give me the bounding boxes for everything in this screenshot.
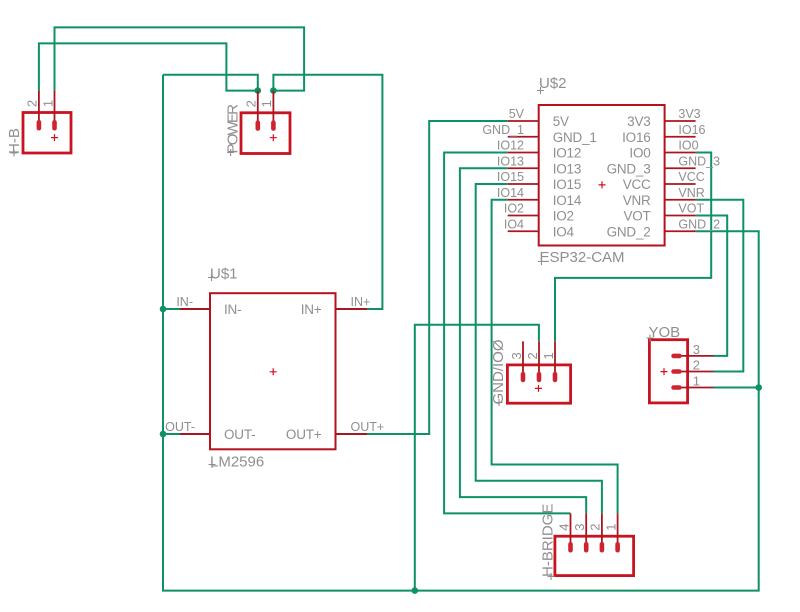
svg-text:VCC: VCC: [623, 177, 651, 192]
svg-text:IO2: IO2: [504, 202, 524, 216]
svg-text:ESP32-CAM: ESP32-CAM: [540, 249, 625, 266]
svg-text:H-BRIDGE: H-BRIDGE: [540, 504, 557, 577]
pin U$2 GND_2: [665, 230, 696, 232]
connector H-B: [23, 113, 71, 154]
wire net VIN- : H-B pin2 to POWER pin2: [39, 43, 258, 90]
net label OUT-: [165, 420, 195, 434]
wire net VIN+ : POWER pin1 to U$1 IN+: [273, 75, 382, 309]
pin U$2 VOT: [665, 215, 696, 217]
pin H-BRIDGE.2: [600, 513, 605, 552]
connector GND/IO0: [507, 365, 570, 403]
svg-text:VNR: VNR: [678, 186, 704, 200]
svg-text:IO12: IO12: [497, 139, 524, 153]
svg-text:1: 1: [259, 100, 274, 107]
svg-text:IN-: IN-: [224, 302, 241, 317]
svg-text:IO4: IO4: [553, 224, 575, 239]
pin number H-BRIDGE 3: [572, 524, 587, 531]
svg-text:OUT+: OUT+: [286, 427, 322, 442]
wire net IO13 : U$2 IO13 to H-BRIDGE pin3: [460, 168, 586, 513]
svg-text:OUT-: OUT-: [224, 427, 255, 442]
svg-text:U$2: U$2: [539, 75, 567, 92]
svg-text:VOT: VOT: [623, 209, 650, 224]
svg-text:IO15: IO15: [497, 170, 524, 184]
refdes U$2: [537, 75, 567, 94]
wire net GND : YOB pin1 to right riser: [714, 387, 759, 389]
svg-text:2: 2: [588, 524, 603, 531]
svg-text:LM2596: LM2596: [210, 454, 264, 471]
svg-text:IO14: IO14: [497, 186, 524, 200]
pin number H-BRIDGE 1: [603, 524, 618, 531]
wire net IO15 : U$2 IO15 to H-BRIDGE pin2: [476, 184, 602, 513]
pin U$2 IO0: [665, 152, 696, 154]
net label OUT+: [351, 420, 385, 434]
origin cross GND/IO0: [535, 385, 542, 392]
pin POWER.1: [271, 91, 276, 131]
svg-text:IO16: IO16: [622, 130, 650, 145]
svg-text:U$1: U$1: [210, 266, 238, 283]
pin number H-B 1: [40, 100, 55, 107]
pin number POWER 1: [259, 100, 274, 107]
junction POWER pin1: [270, 87, 277, 94]
pin number GND/IO0 2: [525, 352, 540, 359]
connector POWER: [241, 113, 290, 154]
pin U$2 VNR: [665, 199, 696, 201]
svg-text:IO12: IO12: [553, 146, 581, 161]
svg-text:3: 3: [693, 342, 700, 357]
pin number H-B 2: [25, 100, 40, 107]
junction bottom rail GND branch: [412, 587, 419, 594]
svg-text:3V3: 3V3: [678, 107, 700, 121]
wire net GND : U$2 GND_2 down right riser: [696, 231, 759, 387]
pin H-BRIDGE.3: [584, 513, 589, 552]
pin GND/IO0.3: [521, 341, 526, 382]
value ESP32-CAM: [538, 249, 625, 266]
svg-text:1: 1: [603, 524, 618, 531]
svg-text:OUT+: OUT+: [351, 420, 385, 434]
svg-text:GND_1: GND_1: [553, 130, 597, 145]
pin U$1 OUT+: [336, 433, 368, 435]
pin U$2 IO4: [508, 230, 539, 232]
pin number H-BRIDGE 4: [556, 524, 571, 531]
pin number YOB 1: [693, 374, 700, 389]
label H-BRIDGE: [540, 504, 557, 580]
pin H-B.1: [52, 90, 57, 130]
svg-text:3: 3: [572, 524, 587, 531]
pin U$2 IO12: [508, 152, 539, 154]
pin U$2 IO2: [508, 215, 539, 217]
wire net VOT : U$2 VOT to YOB pin3: [696, 216, 728, 356]
pin U$1 IN-: [180, 308, 210, 310]
svg-text:1: 1: [40, 100, 55, 107]
wire net VIN+ : H-B pin1 to POWER pin1: [55, 27, 305, 90]
pin U$2 IO13: [508, 167, 539, 169]
svg-text:IN-: IN-: [176, 295, 193, 309]
pin GND/IO0.1: [553, 341, 558, 382]
svg-text:IO14: IO14: [553, 193, 582, 208]
svg-text:GND_3: GND_3: [607, 161, 651, 176]
pin names U$2 right: [607, 114, 651, 239]
svg-text:IN+: IN+: [301, 302, 322, 317]
origin cross U$1: [270, 368, 277, 375]
pin H-B.2: [37, 90, 42, 130]
label POWER: [225, 104, 242, 156]
svg-text:5V: 5V: [509, 107, 525, 121]
svg-text:IO2: IO2: [553, 209, 574, 224]
value LM2596: [209, 454, 265, 471]
label GND/IO0: [490, 339, 507, 406]
wire net GND : rail tap to U$1 IN-: [163, 308, 180, 310]
pin U$2 IO15: [508, 183, 539, 185]
wire net 5V : U$1 OUT+ to U$2 5V: [367, 121, 508, 434]
pin U$2 VCC: [665, 183, 696, 185]
wire net GND : POWER pin2 drop to left rail: [163, 75, 258, 91]
svg-text:IO0: IO0: [678, 139, 698, 153]
svg-text:1: 1: [693, 374, 700, 389]
net label IN-: [176, 295, 193, 309]
svg-text:GND_2: GND_2: [607, 224, 651, 239]
pin YOB.1: [671, 385, 713, 390]
svg-text:3V3: 3V3: [627, 114, 650, 129]
svg-text:2: 2: [693, 358, 700, 373]
svg-text:VCC: VCC: [678, 170, 704, 184]
pin name U$1 IN-: [224, 302, 241, 317]
pin name U$1 IN+: [301, 302, 322, 317]
pin number H-BRIDGE 2: [588, 524, 603, 531]
wire net GND : rail tap to U$1 OUT-: [163, 433, 180, 435]
svg-text:IO13: IO13: [553, 161, 581, 176]
pin U$2 5V: [508, 120, 539, 122]
svg-text:GND_1: GND_1: [482, 123, 524, 137]
pin U$2 GND_3: [665, 167, 696, 169]
svg-text:VOT: VOT: [678, 202, 704, 216]
pin YOB.3: [671, 354, 713, 359]
pin names U$2 left: [553, 114, 597, 239]
wire net VNR : U$2 VNR to YOB pin2: [696, 200, 744, 372]
wire net IO14 : U$2 IO14 to H-BRIDGE pin1: [492, 200, 618, 514]
svg-text:IO13: IO13: [497, 154, 524, 168]
pin POWER.2: [256, 91, 261, 131]
svg-text:IO4: IO4: [504, 217, 524, 231]
origin cross POWER: [270, 134, 277, 141]
pin U$2 3V3: [665, 120, 696, 122]
svg-text:3: 3: [509, 352, 524, 359]
svg-text:OUT-: OUT-: [165, 420, 195, 434]
svg-text:POWER: POWER: [225, 104, 242, 154]
net label IN+: [351, 295, 371, 309]
net labels U$2 right: [678, 107, 720, 231]
label H-B: [6, 128, 23, 156]
origin cross U$2: [599, 181, 606, 188]
svg-text:2: 2: [244, 100, 259, 107]
svg-text:4: 4: [556, 524, 571, 531]
net labels U$2 left: [482, 107, 524, 231]
svg-text:IN+: IN+: [351, 295, 371, 309]
IC U$2 ESP32-CAM body: [539, 105, 665, 246]
pin U$1 OUT-: [180, 433, 210, 435]
svg-text:5V: 5V: [553, 114, 569, 129]
pin H-BRIDGE.1: [615, 513, 620, 552]
svg-text:IO16: IO16: [678, 123, 705, 137]
pin U$2 IO16: [665, 136, 696, 138]
junction POWER pin2: [254, 87, 261, 94]
pin U$2 IO14: [508, 199, 539, 201]
wire net IO12 : U$2 IO12 to H-BRIDGE pin4: [444, 153, 570, 514]
pin number YOB 2: [693, 358, 700, 373]
pin number GND/IO0 1: [541, 352, 556, 359]
pin name U$1 OUT+: [286, 427, 322, 442]
pin U$1 IN+: [336, 308, 368, 310]
pin U$2 GND_1: [508, 136, 539, 138]
svg-text:2: 2: [525, 352, 540, 359]
junction rail OUT-: [160, 431, 167, 438]
pin name U$1 OUT-: [224, 427, 255, 442]
junction rail IN-: [160, 306, 167, 313]
pin number GND/IO0 3: [509, 352, 524, 359]
pin H-BRIDGE.4: [568, 513, 573, 552]
svg-text:GND_2: GND_2: [678, 217, 720, 231]
svg-text:GND_3: GND_3: [678, 154, 720, 168]
refdes U$1: [208, 266, 238, 283]
svg-text:2: 2: [25, 100, 40, 107]
pin number YOB 3: [693, 342, 700, 357]
svg-text:GND/IOØ: GND/IOØ: [490, 339, 507, 404]
pin number POWER 2: [244, 100, 259, 107]
connector H-BRIDGE: [555, 536, 634, 575]
IC U$1 LM2596 body: [210, 293, 336, 449]
svg-text:IO15: IO15: [553, 177, 581, 192]
wire net GND : left rail, bottom rail, right riser: [163, 75, 759, 591]
wire net GND : bottom rail branch to GND/IO0 pin2: [415, 325, 539, 591]
pin GND/IO0.2: [537, 341, 542, 382]
junction YOB pin1 GND: [755, 384, 762, 391]
pin YOB.2: [671, 369, 713, 374]
label YOB: [647, 324, 681, 342]
connector YOB: [649, 340, 687, 403]
origin cross YOB: [661, 368, 668, 375]
svg-text:IO0: IO0: [629, 146, 650, 161]
origin cross H-B: [51, 134, 58, 141]
wire net IO0 : U$2 IO0 to GND/IO0 pin1: [555, 153, 711, 342]
svg-text:VNR: VNR: [623, 193, 651, 208]
svg-text:1: 1: [541, 352, 556, 359]
